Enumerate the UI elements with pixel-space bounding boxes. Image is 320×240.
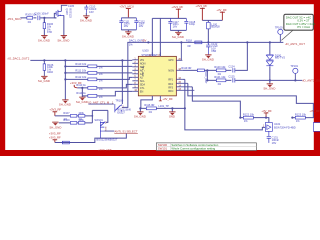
svg-text:R120 10k: R120 10k — [214, 65, 226, 69]
svg-text:R121 10k: R121 10k — [214, 75, 226, 79]
svg-text:GND: GND — [169, 115, 175, 119]
power +3V_RF — [309, 109, 320, 113]
resistor R122 — [239, 113, 269, 124]
power label +3V3_RF hook — [70, 81, 82, 88]
power +3V3_RF — [49, 108, 61, 116]
svg-text:SH_GND: SH_GND — [122, 35, 134, 39]
svg-text:R112 10k: R112 10k — [75, 75, 87, 79]
svg-text:SW101: SW101 — [94, 118, 103, 122]
switch SW101 — [94, 118, 107, 139]
resistor R110b — [62, 141, 69, 144]
capacitor C112 — [134, 18, 145, 30]
wire to bus — [207, 29, 209, 42]
capacitor C110 — [84, 4, 97, 14]
svg-text:R107: R107 — [63, 111, 70, 115]
wire row3 — [55, 134, 127, 143]
IC right pin stubs — [176, 60, 194, 90]
capacitor C106 series — [34, 12, 49, 20]
wire diode to bus1 — [269, 42, 271, 54]
svg-text:16V: 16V — [124, 24, 129, 28]
pin numbers right — [178, 59, 181, 91]
svg-text:R111 10k: R111 10k — [75, 69, 86, 73]
svg-text:›IO_ANT1_OUT: ›IO_ANT1_OUT — [285, 42, 305, 46]
ground — [80, 13, 92, 23]
wire row2 — [59, 122, 71, 124]
svg-text:RFC: RFC — [168, 90, 173, 93]
svg-text:SW101: SW101 — [158, 147, 168, 151]
wire vertical from junction — [43, 18, 45, 23]
svg-text:X5R: X5R — [211, 49, 216, 53]
svg-text:16V: 16V — [272, 141, 277, 145]
ground — [122, 32, 134, 39]
svg-text:SH_GND: SH_GND — [172, 35, 184, 39]
wire diode to bus2 — [269, 66, 271, 80]
svg-text:NON: NON — [168, 69, 174, 72]
svg-text:E6327: E6327 — [117, 111, 125, 115]
IC bottom pin stubs — [159, 96, 161, 99]
svg-text:TR100: TR100 — [115, 98, 123, 102]
node junction — [43, 17, 45, 19]
svg-text:PV = 0mA: PV = 0mA — [297, 25, 310, 29]
svg-text:R109: R109 — [63, 118, 70, 122]
wire — [33, 17, 36, 19]
wire row2 to riser — [85, 116, 93, 123]
capacitor C111 — [119, 18, 130, 30]
svg-text:+3V: +3V — [141, 39, 146, 43]
resistor row y=95.5 — [76, 87, 132, 99]
svg-text:BSS123: BSS123 — [68, 8, 72, 18]
wire join — [170, 30, 186, 32]
svg-text:R122 10k: R122 10k — [243, 113, 255, 117]
svg-text:›IO_DAC1_OUT2: ›IO_DAC1_OUT2 — [7, 57, 29, 61]
node — [43, 59, 45, 61]
resistor row y=72.5 — [65, 69, 132, 77]
svg-text:+3V3_ANT: +3V3_ANT — [98, 148, 112, 152]
wire — [55, 115, 71, 117]
power +3V_RF — [216, 8, 227, 20]
svg-text:SH_GND: SH_GND — [263, 87, 275, 91]
IC top pin stubs — [152, 52, 160, 56]
svg-text:GP0: GP0 — [168, 59, 174, 62]
svg-text:SH_GND: SH_GND — [80, 19, 92, 23]
svg-text:TP101: TP101 — [290, 64, 298, 68]
svg-text:SH_GND: SH_GND — [49, 126, 61, 130]
svg-text:10V: 10V — [139, 24, 144, 28]
svg-text:RF1: RF1 — [168, 78, 173, 81]
svg-text:SH_GND: SH_GND — [202, 58, 214, 62]
svg-text:16V: 16V — [89, 10, 94, 14]
wire bus1 riser left — [122, 42, 128, 107]
ground row2 left — [52, 121, 58, 123]
svg-text:0402: 0402 — [47, 70, 53, 74]
resistor R123 — [291, 113, 314, 124]
svg-text:SH_GND: SH_GND — [38, 38, 50, 42]
wire to switch riser — [85, 110, 93, 116]
svg-text:+3V_RF: +3V_RF — [309, 109, 320, 113]
svg-text:R113 1k: R113 1k — [76, 83, 86, 87]
svg-text:+3V3_RF: +3V3_RF — [49, 108, 61, 112]
ground — [172, 32, 184, 39]
svg-text:SH_GND: SH_GND — [57, 38, 69, 42]
ground — [134, 108, 146, 118]
svg-text:100k: 100k — [78, 111, 84, 115]
capacitor C131 — [267, 131, 280, 145]
power +3V3_RF — [195, 4, 207, 20]
inductor L100 — [207, 22, 221, 29]
wire — [152, 17, 186, 19]
capacitor C108 — [43, 60, 54, 76]
resistor row y=66 — [65, 62, 132, 70]
capacitor C117 — [168, 18, 179, 30]
power +3V_RF — [261, 109, 272, 118]
wire loop L3: IC pin to circuit1 row — [190, 87, 243, 118]
svg-text:C125: C125 — [228, 74, 235, 78]
resistor row y=79 — [65, 75, 132, 83]
svg-text:+3V_RF: +3V_RF — [216, 8, 227, 12]
svg-text:BGA7204-FD-4BD: BGA7204-FD-4BD — [274, 126, 296, 130]
capacitor C118 — [184, 18, 195, 30]
wire drain up — [61, 5, 67, 11]
wire loop L1: IC pin to U101 left pin — [182, 79, 265, 130]
svg-text:L101_TP: L101_TP — [158, 104, 169, 108]
svg-text:DAC_OUT: DAC_OUT — [204, 71, 208, 84]
svg-text:ANTL S1 SELECT: ANTL S1 SELECT — [115, 130, 138, 134]
svg-text:R123 10k: R123 10k — [295, 113, 307, 117]
svg-text:+3V3_RF: +3V3_RF — [171, 5, 183, 9]
wire bus1 — [127, 41, 283, 43]
resistor R105 — [25, 13, 37, 24]
left vertical bus — [64, 60, 66, 100]
svg-text:SH_GND: SH_GND — [59, 103, 71, 107]
power +3V3_RF — [171, 5, 183, 18]
svg-text:SH_GND: SH_GND — [38, 79, 50, 83]
wire — [202, 20, 222, 22]
ground — [57, 36, 69, 43]
switch SW100 — [112, 98, 131, 114]
IC left pin stubs — [132, 60, 138, 92]
test point TP101 — [290, 64, 298, 80]
wire join — [121, 30, 136, 32]
resistor row y=87.5 — [76, 83, 132, 91]
wire — [40, 17, 56, 19]
resistor R112b — [77, 118, 85, 124]
svg-text:100k: 100k — [78, 118, 84, 122]
svg-text:SH_GND: SH_GND — [134, 115, 146, 119]
node — [207, 41, 209, 43]
ground — [76, 96, 88, 104]
wire — [20, 17, 27, 19]
svg-text:100p: 100p — [189, 22, 195, 26]
wire — [30, 59, 132, 61]
wire — [121, 17, 136, 19]
vertical link row1-row2 — [206, 70, 208, 80]
resistor R107 — [63, 111, 77, 121]
svg-text:R116 0R: R116 0R — [144, 103, 154, 107]
svg-text:R119 0R: R119 0R — [181, 66, 191, 70]
svg-text:C106: C106 — [34, 12, 41, 16]
svg-text:0R: 0R — [187, 44, 190, 48]
svg-text:+3V3_RF: +3V3_RF — [49, 136, 61, 140]
svg-text:X7R: X7R — [47, 30, 52, 34]
ground — [38, 36, 50, 43]
svg-text:R110 10k: R110 10k — [75, 62, 87, 66]
svg-text:BLM18: BLM18 — [211, 25, 220, 29]
IC U101 — [263, 122, 296, 131]
pin numbers left — [134, 58, 137, 92]
ground — [169, 108, 176, 118]
net label ANTL S1 SELECT — [104, 130, 138, 134]
ground — [38, 76, 50, 83]
ground — [202, 55, 214, 62]
svg-text:TP100: TP100 — [275, 25, 283, 29]
ground — [59, 100, 71, 107]
transistor Q100 — [54, 8, 72, 18]
wire riser x=122 — [121, 60, 123, 104]
svg-text:+3V3_RF: +3V3_RF — [195, 4, 207, 8]
svg-text:+3V_RF: +3V_RF — [261, 109, 272, 113]
svg-text:+3V3_MCU: +3V3_MCU — [119, 4, 134, 8]
IC U102 (clipped by border) — [313, 123, 320, 132]
border frame — [0, 0, 320, 156]
resistor R111b — [63, 118, 77, 124]
svg-text:EN: EN — [140, 90, 144, 93]
node — [269, 79, 271, 81]
capacitor C122 — [206, 42, 218, 55]
svg-text:›PF1_MCU: ›PF1_MCU — [7, 17, 21, 21]
svg-text:U101: U101 — [274, 122, 281, 126]
net label IO_ANT_CTL_M — [88, 100, 114, 104]
svg-text:C105: C105 — [68, 4, 75, 8]
svg-text:ANT_SEL: ANT_SEL — [142, 65, 145, 77]
ground under diode — [263, 80, 275, 90]
svg-text:16V: 16V — [173, 25, 178, 29]
wire — [43, 29, 45, 36]
svg-text:›IO_ANT2_OUT: ›IO_ANT2_OUT — [302, 78, 320, 82]
svg-text:100nF: 100nF — [41, 12, 49, 16]
node — [147, 41, 149, 43]
wire VDD risers to IC — [152, 18, 160, 56]
capacitor C107 — [43, 18, 53, 34]
wire sw1 link — [92, 110, 108, 122]
power label +3V_RF below IC — [159, 97, 173, 101]
resistor R108 — [77, 111, 85, 121]
power +3V3_RF 2 — [49, 132, 61, 143]
wire source down — [63, 15, 65, 35]
svg-text:Whole Current configuration se: Whole Current configuration setting — [171, 147, 215, 151]
wire loop L2: IC pin to circuit2 — [186, 83, 313, 117]
svg-text:R118: R118 — [186, 39, 193, 43]
svg-text:WE-TVS: WE-TVS — [275, 56, 285, 60]
svg-text:R114 1k: R114 1k — [76, 91, 86, 95]
svg-text:C124: C124 — [228, 64, 235, 68]
power +3V3_MCU — [119, 4, 134, 17]
svg-text:+3V_RF: +3V_RF — [162, 97, 173, 101]
svg-text:SH_GND: SH_GND — [76, 100, 88, 104]
svg-text:U100: U100 — [142, 49, 149, 53]
